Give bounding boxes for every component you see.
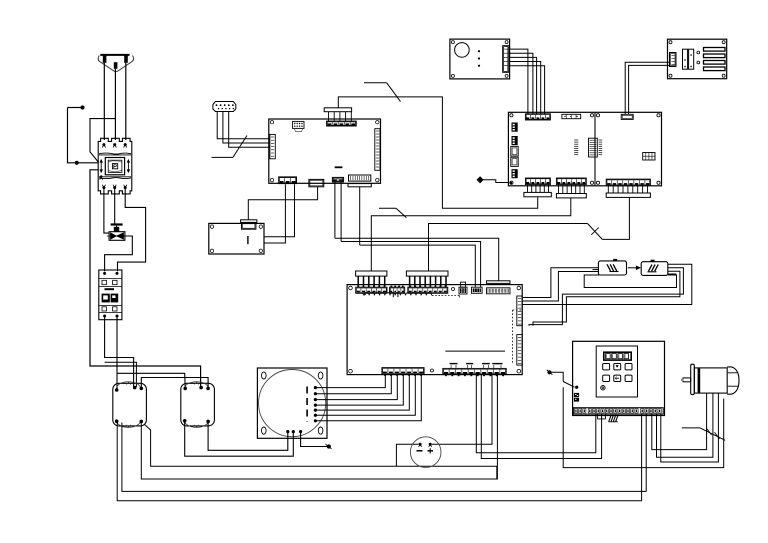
- A0 top connector 2: [390, 287, 405, 293]
- A4 indicator dots: [478, 50, 480, 52]
- cable A1c4 to A0 conn5: [360, 245, 476, 287]
- A5 heatsink bars: [704, 48, 726, 52]
- wires A2 top right to A5: [625, 62, 669, 114]
- A3 wires to board A1 conn1: [264, 184, 295, 237]
- breaker center mechanism: [105, 158, 124, 175]
- A2 top connector 2: [562, 114, 581, 118]
- control panel enclosure: [573, 341, 665, 415]
- A3 top connector: [241, 220, 257, 223]
- display/speaker board A4: [450, 39, 510, 79]
- junction dot D2: [75, 161, 79, 165]
- wire chain to pump2 left: [117, 373, 185, 388]
- wire breaker out right pole bypass: [118, 189, 146, 271]
- wire phase B: [114, 69, 116, 140]
- filter box FL1: [598, 261, 626, 275]
- A0 top connector 5: [472, 287, 483, 293]
- A0 inner horizontal line: [445, 350, 505, 352]
- A2 left diamond stub: [477, 177, 483, 183]
- blower motor M1 plate: [257, 368, 327, 438]
- signal dot stub to panel: [547, 370, 551, 374]
- M2 end cap: [727, 367, 739, 394]
- A2 bottom connector 1 + bracket: [525, 178, 550, 185]
- A2 center IC text right: [599, 139, 603, 141]
- wire A0 connA w1 to filter box1: [522, 268, 598, 298]
- wire A0 connA w2 to filter box1: [522, 272, 598, 302]
- panel left small block: [574, 393, 579, 397]
- breaker divider lines: [99, 153, 131, 154]
- controller board A2 (two sections): [508, 112, 661, 186]
- under loop box1-box2: [584, 275, 676, 288]
- M2 lead wires: [652, 393, 707, 450]
- A2 left edge DIP blocks: [512, 123, 518, 132]
- A5 indicator circles: [697, 51, 700, 54]
- KM1 terminals: [115, 388, 119, 392]
- A5 relay rectangles: [683, 49, 688, 69]
- callout K3 on cable: [379, 207, 396, 209]
- wire QF2 left out to pump1 mid: [105, 318, 134, 388]
- A0 scalloped dotted line: [364, 293, 432, 296]
- cable A1c3 to A0 conn6: [335, 238, 499, 280]
- M2 flange: [691, 364, 695, 394]
- A3 center mark: [247, 236, 249, 244]
- A0 small tabs above bottom connector2: [450, 363, 458, 365]
- A0 bottom connector 1: [382, 368, 424, 375]
- cable A2 bracket2 to main conn1 bundle: [371, 198, 571, 271]
- DC fan M3 circle: [410, 437, 441, 468]
- blower dashed separator: [306, 387, 308, 422]
- A1 inner dash: [335, 166, 343, 168]
- wire breaker out mid pole to valve: [114, 189, 116, 225]
- wire left drop to breaker: [68, 108, 99, 163]
- A1 bottom connector 2: [309, 179, 324, 186]
- KM2 terminals: [183, 387, 187, 391]
- A2 left edge jacks: [511, 146, 518, 156]
- blower motor circle: [259, 370, 326, 437]
- panel small round button: [601, 386, 605, 390]
- A2 center IC text left: [574, 139, 578, 141]
- A2 top connector 3 (right section): [621, 114, 633, 119]
- A0 bottom connector 2: [443, 368, 506, 374]
- callout tick K4: [591, 228, 598, 235]
- gas valve T1: [111, 223, 123, 225]
- wire phase A: [103, 63, 105, 140]
- pump KM1 body: [113, 383, 147, 426]
- relay board A5: [668, 39, 727, 78]
- wire pump1L bottom double bus to panel: [117, 414, 641, 501]
- breaker top terminals: [102, 143, 105, 146]
- wire pump1R chain to pump2R: [141, 378, 208, 388]
- fan motor M2: [694, 368, 727, 393]
- circuit breaker QF1 body: [98, 138, 132, 194]
- controller board A1: [269, 119, 381, 183]
- interface board A3: [209, 223, 264, 254]
- A4 speaker circle: [455, 43, 470, 58]
- A4 right edge connector: [503, 46, 509, 73]
- cable label callout K2: [364, 82, 387, 84]
- panel display module: [596, 346, 637, 397]
- cable A1c3b to A0 conn5: [341, 242, 481, 288]
- arrow FL1 to FL2: [628, 267, 637, 269]
- wire phase C: [125, 63, 127, 140]
- panel 7-segment display: [604, 352, 631, 360]
- DIN rail breaker QF2: [99, 270, 122, 320]
- wire breaker side to pumps bypass: [90, 170, 201, 387]
- main control board A0: [347, 285, 522, 375]
- cable label callout K1: [212, 156, 233, 158]
- A1 right edge connector strip: [375, 129, 380, 171]
- pump KM2 body: [181, 383, 215, 426]
- wire A0 conn2 w1 to panel: [476, 375, 596, 453]
- wire pump1R to DC fan minus: [145, 425, 498, 480]
- 3-phase power inlet J1: [100, 54, 129, 56]
- molex connector X1: [213, 102, 236, 112]
- filter box FL2: [641, 262, 668, 276]
- blower right terminals and wires to main board: [314, 386, 317, 389]
- A0 top connector 4 small: [459, 287, 467, 294]
- panel coil mark under strip: [598, 414, 606, 419]
- cable A2 bracket3 to main conn2-3 bundle: [602, 197, 629, 239]
- A2 center connector on divider: [589, 138, 598, 157]
- A0 right edge connector A: [517, 296, 522, 326]
- A2 right section small connector: [643, 153, 655, 161]
- wire QF2 right out to pump1 left: [116, 318, 118, 390]
- A0 dotted edge line: [512, 310, 514, 364]
- A4 wires to A2 top connector: [509, 49, 528, 114]
- A0 top connector 6 hatched + bracket: [487, 288, 511, 294]
- wire panel entry down to motor loop: [563, 387, 724, 467]
- wire A0 conn2 w3 to DC fan +: [432, 375, 492, 445]
- A1 bottom connector 1: [279, 177, 297, 184]
- wire blower b1 to pump2R: [208, 423, 288, 451]
- wire second feed pump1 mid: [105, 362, 137, 387]
- wire A0 connA w3 outer loop to box2: [522, 264, 692, 304]
- breaker side arrows: [100, 160, 102, 172]
- wire box2 return loop to connA bottom: [529, 268, 683, 326]
- wire phase-B tap to breaker side: [90, 119, 115, 163]
- A1 left edge connector: [270, 134, 275, 158]
- wire A0 conn2 w2 to panel: [481, 375, 601, 459]
- wire breaker out left pole: [104, 189, 109, 233]
- wire valve out to DIN breaker: [105, 236, 133, 271]
- A0 right edge connector B: [517, 335, 522, 366]
- A1 top ribbon connector: [327, 121, 357, 126]
- A1 conn4 cable down: [359, 187, 361, 245]
- A0 top connector 1: [356, 287, 387, 293]
- A1 bottom connector 3: [332, 177, 343, 182]
- node tap with dot D1: [68, 107, 82, 109]
- A1 small grid connector: [293, 121, 304, 128]
- QF2 switch windows: [102, 294, 110, 303]
- blower bottom terminals: [286, 430, 289, 433]
- A0 top connector 3: [408, 287, 448, 293]
- breaker bottom terminals: [102, 186, 105, 189]
- wire A0 conn2 w4 to pump1R bottom: [141, 375, 497, 479]
- wire A1 conn2 down to A3 top: [248, 187, 317, 220]
- fan minus tap: [396, 444, 418, 466]
- panel terminal strip: [573, 408, 663, 414]
- A1 conn3 wires down: [334, 182, 336, 238]
- cable A1 top connector to A2 bracket1: [338, 97, 537, 208]
- A0 bracket over conn1: [356, 271, 387, 276]
- wire blower b3 stub with arrow dot: [301, 433, 328, 447]
- panel buttons: [603, 364, 610, 370]
- A0 bracket over conn3: [406, 271, 448, 276]
- A2 left edge block 3: [512, 169, 518, 178]
- M2 shaft: [683, 378, 691, 382]
- A1 bottom connector 4 with bracket: [349, 175, 371, 181]
- X1 wires to A1 left connector: [217, 112, 270, 139]
- A2 bottom connector 2 + bracket: [556, 178, 586, 185]
- wire blower b2 to pump2L: [185, 422, 294, 456]
- A5 left connector: [670, 53, 677, 67]
- A2 bottom connector 3 + bracket: [606, 179, 650, 186]
- wire box2 second return: [533, 271, 680, 326]
- callout K5 on motor leads: [682, 427, 700, 429]
- A2 top connector 1: [525, 114, 550, 120]
